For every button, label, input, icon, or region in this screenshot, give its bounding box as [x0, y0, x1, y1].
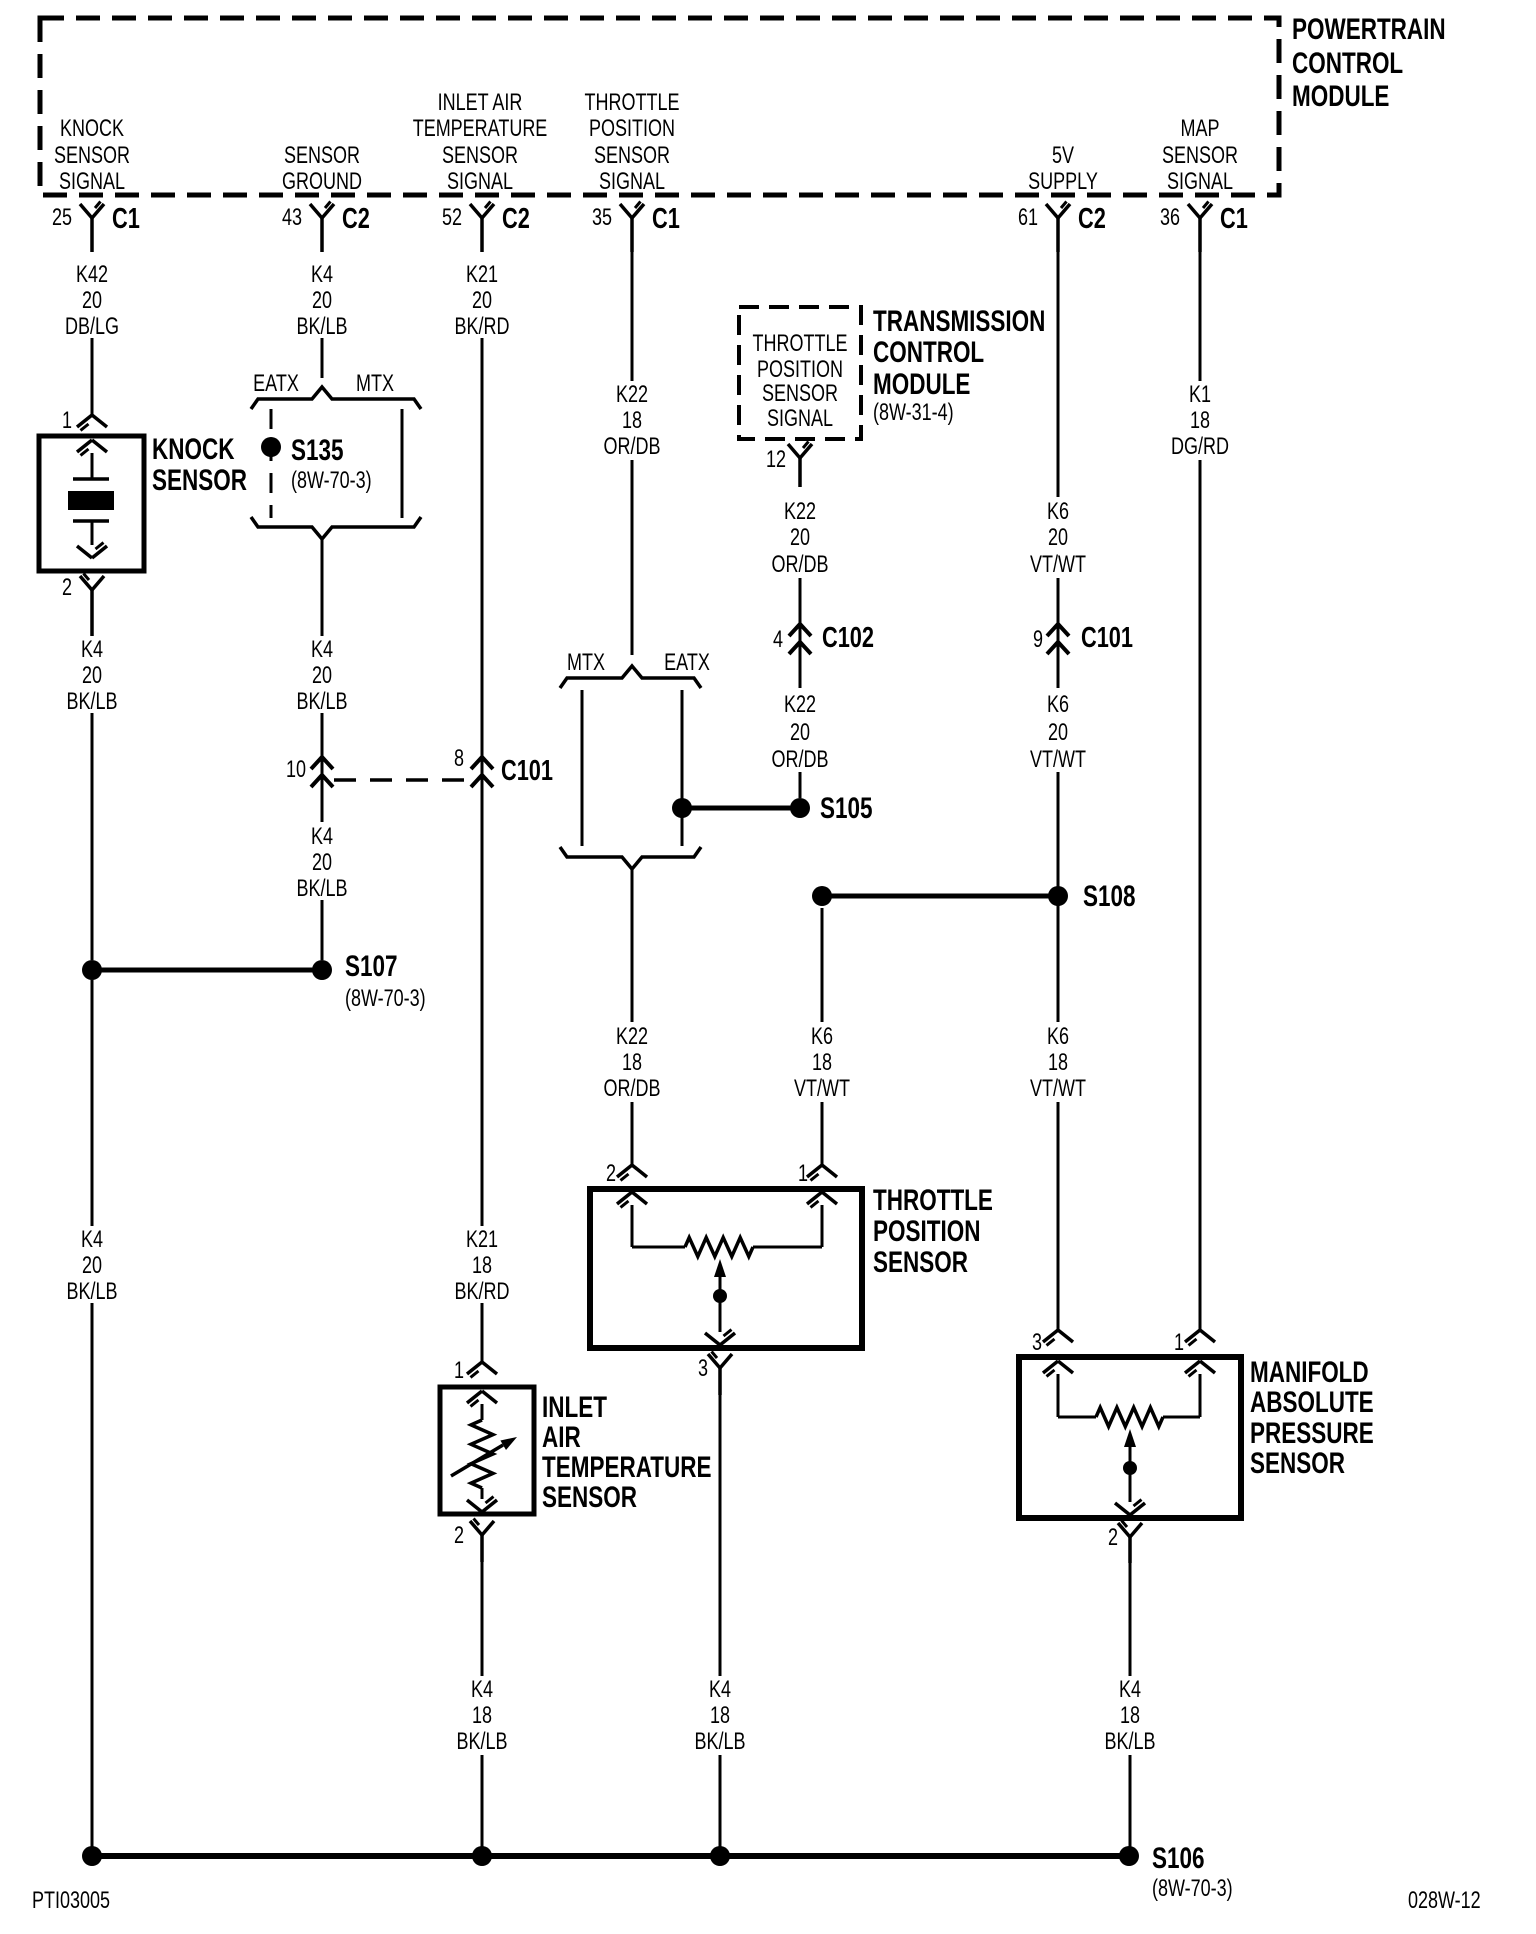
svg-text:MAP: MAP	[1181, 116, 1220, 142]
svg-text:2: 2	[454, 1523, 464, 1549]
wire K6 20 VT/WT label (lower)	[1030, 692, 1086, 773]
svg-text:OR/DB: OR/DB	[604, 434, 661, 460]
wire K4 20 BK/LB label (knock return)	[66, 637, 117, 715]
svg-text:61: 61	[1018, 205, 1038, 231]
MAP potentiometer resistor	[1096, 1408, 1163, 1427]
svg-text:S135: S135	[291, 433, 344, 467]
MAP pin 2 terminal	[1108, 1521, 1142, 1564]
svg-text:K22: K22	[616, 382, 648, 408]
IAT pin 2 terminal	[454, 1519, 494, 1563]
svg-text:K21: K21	[466, 262, 498, 288]
node INLET AIR TEMPERATURE SENSOR SIGNAL label	[413, 90, 548, 195]
svg-text:18: 18	[472, 1253, 492, 1279]
wire TPS signal (brace to sensor)	[631, 869, 634, 1165]
TPS potentiometer resistor	[685, 1238, 753, 1257]
svg-text:36: 36	[1160, 205, 1180, 231]
wire MAP sensor signal (PCM 36 to MAP pin 1)	[1199, 252, 1202, 1330]
wire sensor ground (PCM 43 to S135 brace)	[321, 338, 324, 378]
svg-text:POSITION: POSITION	[873, 1214, 980, 1248]
TPS pin 2 terminal	[606, 1161, 647, 1187]
svg-text:BK/RD: BK/RD	[455, 1279, 510, 1305]
svg-text:S108: S108	[1083, 879, 1136, 913]
svg-text:43: 43	[282, 205, 302, 231]
svg-text:20: 20	[82, 1253, 102, 1279]
dashed link C101 pin10 to pin8	[334, 778, 470, 782]
wire TCM signal (C102 to S105)	[799, 772, 802, 798]
MAP pin 3 terminal	[1032, 1330, 1073, 1356]
svg-text:18: 18	[1190, 408, 1210, 434]
wire TCM signal (pin 12 to C102)	[799, 578, 802, 688]
node 5V SUPPLY label	[1028, 143, 1098, 195]
drawing number PTI03005	[32, 1888, 110, 1914]
wire K4 20 BK/LB label (below C101)	[296, 824, 347, 902]
knock sensor element	[68, 440, 114, 558]
EATX / MTX labels (S135)	[253, 371, 394, 397]
svg-text:2: 2	[606, 1161, 616, 1187]
wire TPS signal (PCM 35 down)	[631, 252, 634, 655]
svg-text:SUPPLY: SUPPLY	[1028, 169, 1098, 195]
TCM name label	[873, 304, 1045, 426]
svg-text:10: 10	[286, 757, 306, 783]
svg-text:20: 20	[312, 288, 332, 314]
svg-text:028W-12: 028W-12	[1408, 1888, 1481, 1914]
svg-text:S107: S107	[345, 949, 398, 983]
svg-text:18: 18	[622, 1050, 642, 1076]
wire MAP return (pin 2 to bus)	[1129, 1563, 1132, 1852]
svg-text:POWERTRAIN: POWERTRAIN	[1292, 12, 1446, 46]
svg-text:18: 18	[812, 1050, 832, 1076]
svg-text:MODULE: MODULE	[873, 367, 970, 401]
svg-text:OR/DB: OR/DB	[604, 1076, 661, 1102]
wire IAT signal to sensor	[481, 1303, 484, 1364]
svg-text:20: 20	[1048, 525, 1068, 551]
splice S107	[82, 949, 426, 1012]
wire IAT return (pin 2 to bus)	[481, 1562, 484, 1856]
svg-text:K6: K6	[811, 1024, 833, 1050]
svg-text:20: 20	[1048, 720, 1068, 746]
svg-text:INLET AIR: INLET AIR	[438, 90, 523, 116]
svg-text:MODULE: MODULE	[1292, 79, 1389, 113]
node MAP SENSOR SIGNAL label	[1162, 116, 1238, 195]
svg-text:POSITION: POSITION	[757, 357, 843, 383]
svg-text:K6: K6	[1047, 1024, 1069, 1050]
svg-text:INLET: INLET	[542, 1390, 607, 1424]
wire knock ground (S107 to bus)	[91, 980, 94, 1856]
bus junction (knock branch)	[82, 1846, 102, 1866]
svg-text:K4: K4	[81, 637, 103, 663]
svg-text:52: 52	[442, 205, 462, 231]
knock sensor box	[39, 436, 144, 571]
wire K22 18 OR/DB label (to TPS)	[604, 1024, 661, 1102]
wire K4 20 BK/LB label (ground branch)	[296, 637, 347, 715]
wire K4 18 BK/LB label (TPS return)	[694, 1677, 745, 1755]
svg-text:18: 18	[1120, 1703, 1140, 1729]
svg-text:20: 20	[82, 288, 102, 314]
svg-text:K4: K4	[81, 1227, 103, 1253]
wire K22 18 OR/DB label (TPS signal)	[604, 382, 661, 460]
ground bus wire	[92, 1853, 1129, 1859]
svg-text:3: 3	[698, 1356, 708, 1382]
svg-text:S106: S106	[1152, 1841, 1205, 1875]
svg-text:GROUND: GROUND	[282, 169, 362, 195]
IAT name label	[542, 1390, 711, 1514]
TPS branch brace bottom	[560, 847, 701, 869]
svg-text:C101: C101	[501, 755, 553, 787]
svg-text:SENSOR: SENSOR	[542, 1480, 637, 1514]
splice S108	[812, 879, 1136, 913]
wire K6 18 VT/WT label (to TPS pin1)	[794, 1024, 850, 1102]
sheet number 028W-12	[1408, 1888, 1481, 1914]
svg-text:1: 1	[62, 408, 72, 434]
TPS branch EATX wire	[681, 690, 684, 846]
connector C2 pin 52	[442, 202, 530, 253]
svg-text:SIGNAL: SIGNAL	[599, 169, 665, 195]
svg-text:20: 20	[312, 663, 332, 689]
connector C101 pin 10	[286, 757, 333, 787]
svg-text:25: 25	[52, 205, 72, 231]
svg-text:KNOCK: KNOCK	[60, 116, 124, 142]
connector C1 pin 36	[1160, 202, 1248, 253]
svg-text:35: 35	[592, 205, 612, 231]
wire K6 20 VT/WT label (upper)	[1030, 499, 1086, 578]
svg-text:THROTTLE: THROTTLE	[873, 1183, 993, 1217]
svg-text:VT/WT: VT/WT	[1030, 1076, 1086, 1102]
MAP name label	[1250, 1355, 1374, 1480]
svg-text:C102: C102	[822, 622, 874, 654]
powertrain control module PCM dashed box	[40, 18, 1279, 195]
svg-text:K22: K22	[784, 499, 816, 525]
svg-text:EATX: EATX	[664, 650, 710, 676]
svg-text:SENSOR: SENSOR	[1250, 1446, 1345, 1480]
S135 MTX branch	[401, 409, 404, 518]
svg-text:CONTROL: CONTROL	[1292, 46, 1403, 80]
wire K1 18 DG/RD label	[1171, 382, 1229, 460]
svg-text:SIGNAL: SIGNAL	[447, 169, 513, 195]
svg-text:SENSOR: SENSOR	[762, 381, 838, 407]
svg-text:BK/LB: BK/LB	[296, 689, 347, 715]
svg-text:PTI03005: PTI03005	[32, 1888, 110, 1914]
svg-text:K22: K22	[616, 1024, 648, 1050]
MAP pin 1 terminal	[1174, 1330, 1215, 1356]
TPS wiper	[705, 1259, 735, 1345]
svg-text:OR/DB: OR/DB	[772, 552, 829, 578]
svg-text:2: 2	[62, 575, 72, 601]
splice S135	[261, 433, 372, 494]
svg-text:THROTTLE: THROTTLE	[753, 331, 848, 357]
svg-text:DG/RD: DG/RD	[1171, 434, 1229, 460]
TCM connector pin 12	[766, 442, 812, 488]
svg-text:C2: C2	[1078, 203, 1106, 235]
svg-text:(8W-70-3): (8W-70-3)	[345, 986, 426, 1012]
svg-text:CONTROL: CONTROL	[873, 335, 984, 369]
svg-text:(8W-31-4): (8W-31-4)	[873, 400, 954, 426]
wire TPS return (pin 3 to bus)	[719, 1395, 722, 1856]
svg-text:4: 4	[773, 627, 783, 653]
svg-text:BK/LB: BK/LB	[296, 876, 347, 902]
connector C1 pin 25	[52, 202, 140, 253]
svg-text:C2: C2	[502, 203, 530, 235]
wire C101 pin10 to S107	[321, 900, 324, 960]
TPS internal wiring	[617, 1192, 837, 1247]
svg-text:9: 9	[1033, 627, 1043, 653]
svg-text:1: 1	[454, 1358, 464, 1384]
wire S135 to C101 pin 10	[321, 539, 324, 822]
wire 5V supply (C101 to S108)	[1057, 772, 1060, 890]
MAP internal wiring	[1043, 1361, 1215, 1417]
node THROTTLE POSITION SENSOR SIGNAL (TCM) label	[753, 331, 848, 432]
wire K22 20 OR/DB label (TCM upper)	[772, 499, 829, 578]
wire 5V branch (S108 to TPS pin 1)	[821, 908, 824, 1165]
svg-text:PRESSURE: PRESSURE	[1250, 1416, 1374, 1450]
svg-text:C1: C1	[112, 203, 140, 235]
svg-text:S105: S105	[820, 791, 873, 825]
splice S105	[672, 791, 873, 825]
svg-text:K4: K4	[1119, 1677, 1141, 1703]
wire 5V supply (S108 to MAP pin 3)	[1057, 902, 1060, 1330]
TPS branch brace top	[560, 666, 701, 688]
PCM name label	[1292, 12, 1446, 113]
svg-text:SENSOR: SENSOR	[284, 143, 360, 169]
svg-text:K4: K4	[311, 262, 333, 288]
svg-text:AIR: AIR	[542, 1420, 581, 1454]
wire 5V supply (PCM 61 down)	[1057, 252, 1060, 688]
svg-text:1: 1	[798, 1161, 808, 1187]
node KNOCK SENSOR SIGNAL label	[54, 116, 130, 195]
wire K4 18 BK/LB label (IAT return)	[456, 1677, 507, 1755]
svg-text:DB/LG: DB/LG	[65, 314, 119, 340]
svg-text:(8W-70-3): (8W-70-3)	[291, 468, 372, 494]
svg-text:BK/LB: BK/LB	[296, 314, 347, 340]
inlet air temperature sensor box	[440, 1387, 534, 1514]
svg-text:C2: C2	[342, 203, 370, 235]
S135 brace bottom	[251, 517, 421, 539]
svg-text:TEMPERATURE: TEMPERATURE	[413, 116, 548, 142]
splice S106	[1119, 1841, 1233, 1902]
connector C101 pin 8	[454, 746, 553, 787]
connector C102 pin 4	[773, 622, 874, 654]
svg-text:K6: K6	[1047, 692, 1069, 718]
knock sensor name	[152, 432, 247, 497]
TPS name label	[873, 1183, 993, 1279]
wire K21 20 BK/RD label	[455, 262, 510, 340]
svg-text:SIGNAL: SIGNAL	[767, 406, 833, 432]
bus junction (IAT branch)	[472, 1846, 492, 1866]
svg-text:18: 18	[622, 408, 642, 434]
svg-text:C1: C1	[1220, 203, 1248, 235]
svg-text:C101: C101	[1081, 622, 1133, 654]
svg-text:BK/LB: BK/LB	[694, 1729, 745, 1755]
wire knock sensor signal (PCM 25 to knock sensor)	[91, 338, 94, 415]
node THROTTLE POSITION SENSOR SIGNAL label	[585, 90, 680, 195]
transmission control module TCM dashed box	[739, 307, 861, 439]
svg-text:K4: K4	[311, 637, 333, 663]
throttle position sensor box	[590, 1189, 862, 1348]
wire K22 20 OR/DB label (TCM lower)	[772, 692, 829, 773]
svg-text:5V: 5V	[1052, 143, 1075, 169]
svg-text:MANIFOLD: MANIFOLD	[1250, 1355, 1369, 1389]
svg-text:ABSOLUTE: ABSOLUTE	[1250, 1385, 1374, 1419]
svg-text:K42: K42	[76, 262, 108, 288]
svg-text:SENSOR: SENSOR	[54, 143, 130, 169]
IAT pin 1 terminal	[454, 1358, 497, 1384]
svg-text:BK/LB: BK/LB	[66, 1279, 117, 1305]
svg-text:20: 20	[82, 663, 102, 689]
svg-text:SENSOR: SENSOR	[594, 143, 670, 169]
svg-text:K4: K4	[709, 1677, 731, 1703]
svg-text:8: 8	[454, 746, 464, 772]
svg-text:K4: K4	[471, 1677, 493, 1703]
svg-text:SENSOR: SENSOR	[873, 1245, 968, 1279]
svg-text:BK/LB: BK/LB	[1104, 1729, 1155, 1755]
svg-text:THROTTLE: THROTTLE	[585, 90, 680, 116]
svg-text:EATX: EATX	[253, 371, 299, 397]
svg-text:KNOCK: KNOCK	[152, 432, 234, 466]
bus junction (TPS branch)	[710, 1846, 730, 1866]
svg-text:SENSOR: SENSOR	[152, 463, 247, 497]
svg-text:OR/DB: OR/DB	[772, 747, 829, 773]
svg-text:VT/WT: VT/WT	[1030, 747, 1086, 773]
svg-text:BK/RD: BK/RD	[455, 314, 510, 340]
wire K4 18 BK/LB label (MAP return)	[1104, 1677, 1155, 1755]
wire K21 18 BK/RD label	[455, 1227, 510, 1305]
svg-text:20: 20	[472, 288, 492, 314]
svg-text:K6: K6	[1047, 499, 1069, 525]
svg-text:K21: K21	[466, 1227, 498, 1253]
svg-text:18: 18	[710, 1703, 730, 1729]
MTX / EATX labels (TPS branch)	[567, 650, 710, 676]
TPS pin 1 terminal	[798, 1161, 837, 1187]
svg-text:BK/LB: BK/LB	[66, 689, 117, 715]
svg-text:POSITION: POSITION	[589, 116, 675, 142]
svg-text:1: 1	[1174, 1330, 1184, 1356]
svg-text:MTX: MTX	[567, 650, 605, 676]
svg-text:(8W-70-3): (8W-70-3)	[1152, 1876, 1233, 1902]
knock sensor pin 1 terminal	[62, 408, 107, 434]
node SENSOR GROUND label	[282, 143, 362, 195]
connector C2 pin 61	[1018, 202, 1106, 253]
S135 brace top	[251, 387, 421, 409]
svg-text:TRANSMISSION: TRANSMISSION	[873, 304, 1045, 338]
knock sensor pin 2 terminal	[62, 574, 104, 637]
svg-text:VT/WT: VT/WT	[1030, 552, 1086, 578]
wire K4 20 BK/LB label (sensor ground)	[296, 262, 347, 340]
svg-text:20: 20	[790, 720, 810, 746]
svg-text:SIGNAL: SIGNAL	[1167, 169, 1233, 195]
svg-text:3: 3	[1032, 1330, 1042, 1356]
connector C1 pin 35	[592, 202, 680, 253]
svg-text:2: 2	[1108, 1525, 1118, 1551]
TPS pin 3 terminal	[698, 1352, 732, 1396]
svg-text:SENSOR: SENSOR	[442, 143, 518, 169]
S135 EATX dashed branch	[270, 409, 273, 518]
connector C2 pin 43	[282, 202, 370, 253]
TPS branch MTX wire	[581, 690, 584, 846]
svg-text:20: 20	[790, 525, 810, 551]
svg-text:20: 20	[312, 850, 332, 876]
MAP sensor box	[1019, 1357, 1241, 1518]
wire K42 20 DB/LG label	[65, 262, 119, 340]
wire IAT signal (PCM 52 through C101 pin 8)	[481, 338, 484, 1226]
svg-text:18: 18	[472, 1703, 492, 1729]
svg-text:BK/LB: BK/LB	[456, 1729, 507, 1755]
svg-text:VT/WT: VT/WT	[794, 1076, 850, 1102]
svg-text:C1: C1	[652, 203, 680, 235]
svg-text:K4: K4	[311, 824, 333, 850]
svg-text:SENSOR: SENSOR	[1162, 143, 1238, 169]
svg-text:K1: K1	[1189, 382, 1211, 408]
wire knock sensor return (pin 2 to S107)	[91, 590, 94, 960]
svg-text:SIGNAL: SIGNAL	[59, 169, 125, 195]
svg-text:12: 12	[766, 447, 786, 473]
IAT thermistor element	[451, 1391, 517, 1512]
svg-text:MTX: MTX	[356, 371, 394, 397]
wire K4 20 BK/LB label (to bus)	[66, 1227, 117, 1305]
svg-text:18: 18	[1048, 1050, 1068, 1076]
svg-text:TEMPERATURE: TEMPERATURE	[542, 1450, 711, 1484]
svg-text:K22: K22	[784, 692, 816, 718]
connector C101 pin 9	[1033, 622, 1133, 654]
MAP wiper	[1115, 1429, 1145, 1515]
wire K6 18 VT/WT label (to MAP pin3)	[1030, 1024, 1086, 1102]
